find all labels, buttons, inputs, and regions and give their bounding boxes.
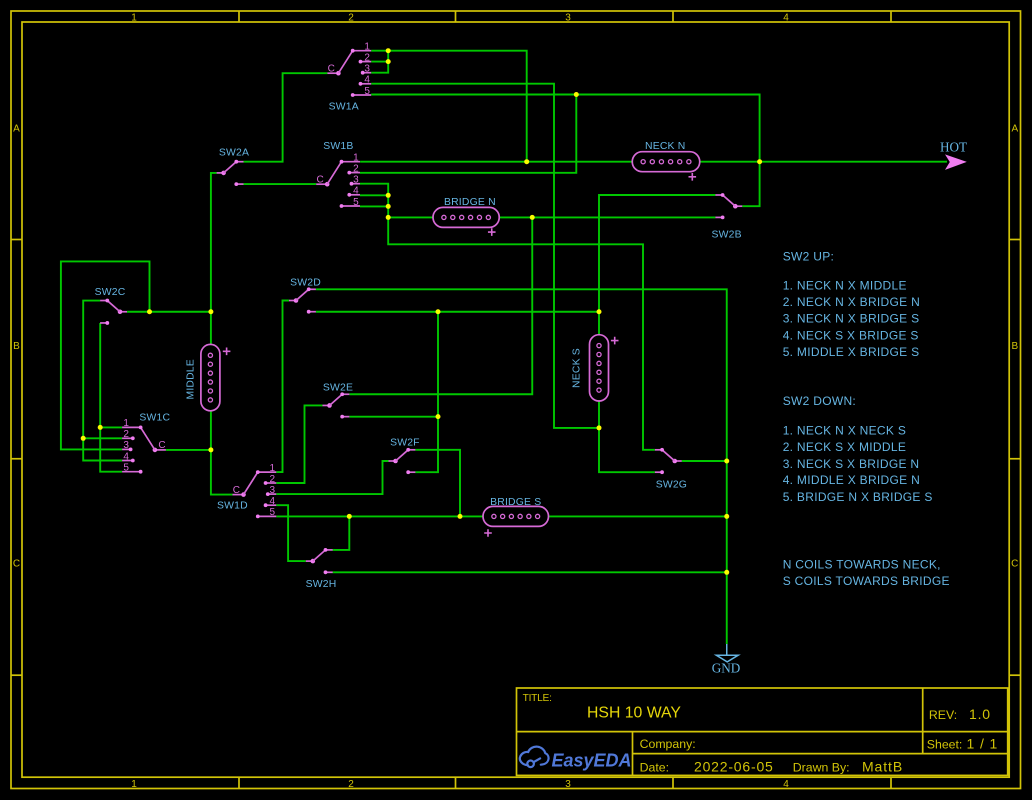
SW2A throw pin 2 — [236, 183, 243, 185]
SW1C common pin C — [155, 449, 166, 451]
SW1B lever — [327, 162, 341, 185]
svg-text:3: 3 — [565, 779, 571, 790]
SW1C pin 1 — [122, 426, 141, 428]
wire SW1B pin1 to NECK N left — [360, 161, 632, 163]
junction J14 — [436, 414, 441, 419]
svg-text:4. MIDDLE X BRIDGE N: 4. MIDDLE X BRIDGE N — [783, 473, 920, 487]
svg-text:3: 3 — [269, 485, 275, 496]
svg-text:SW2 DOWN:: SW2 DOWN: — [783, 394, 856, 408]
svg-text:C: C — [233, 485, 240, 496]
wire SW2A common to MIDDLE top — [211, 173, 217, 345]
svg-text:TITLE:: TITLE: — [523, 693, 552, 704]
pickup MIDDLE — [186, 344, 231, 410]
SW2H common pin — [306, 560, 313, 562]
svg-text:2. NECK S X MIDDLE: 2. NECK S X MIDDLE — [783, 440, 906, 454]
wire SW2C common to MIDDLE net — [127, 311, 211, 313]
logo EasyEDA — [520, 747, 632, 771]
svg-text:1 / 1: 1 / 1 — [967, 736, 999, 752]
switch SW1B — [316, 141, 360, 208]
junction J5 — [574, 92, 579, 97]
SW2F lever — [396, 450, 409, 461]
SW2H throw pin 2 — [326, 571, 333, 573]
SW1B pin 5 — [342, 205, 361, 207]
SW2C lever — [107, 301, 120, 312]
wire SW2B throw1 to NECK S top — [599, 195, 715, 335]
svg-text:A: A — [1011, 124, 1018, 135]
SW1C pin 2 — [122, 437, 133, 439]
wire SW1C common link — [166, 449, 211, 451]
wire BRIDGE N left — [388, 216, 433, 218]
SW2G throw pin 2 — [655, 471, 662, 473]
SW2D throw pin 2 — [309, 311, 316, 313]
SW1C lever — [141, 427, 155, 450]
junction J17 — [208, 447, 213, 452]
SW2B throw pin 2 — [715, 216, 722, 218]
SW2H lever — [313, 550, 326, 561]
svg-text:C: C — [316, 174, 323, 185]
svg-text:1: 1 — [131, 13, 137, 24]
SW1A pin 3 — [363, 72, 372, 74]
wire SW1C pin2 link — [83, 437, 122, 439]
SW1D pin 4 — [266, 504, 277, 506]
wire SW2D throw1 to GND rail — [316, 289, 727, 644]
switch SW2D — [289, 277, 321, 313]
svg-text:NECK S: NECK S — [572, 348, 583, 388]
switch SW2G — [655, 448, 687, 491]
ground GND — [712, 644, 741, 676]
switch SW2E — [323, 382, 354, 418]
wire SW1A C to SW2A throw1 — [244, 73, 328, 162]
wire SW2H throw2 to GND rail — [333, 571, 727, 573]
junction J21 — [724, 459, 729, 464]
svg-text:2: 2 — [269, 474, 275, 485]
svg-text:1: 1 — [353, 153, 359, 164]
wire SW2D common to SW1D pin1 — [276, 301, 289, 473]
wire BRIDGE S right to GND rail — [549, 515, 727, 517]
svg-text:C: C — [1011, 559, 1018, 570]
wire SW2C common branch to SW1C pin3 — [61, 261, 150, 449]
wire SW1A pin5 to SW2B common — [371, 95, 759, 207]
svg-text:Drawn By:: Drawn By: — [793, 761, 850, 775]
title block — [517, 688, 1008, 775]
SW2G throw pin 1 — [655, 449, 662, 451]
SW2B lever — [723, 195, 736, 206]
wire SW2E throw1 to BRIDGE N net — [349, 217, 532, 394]
svg-text:1. NECK N X MIDDLE: 1. NECK N X MIDDLE — [783, 278, 907, 292]
NECK N polarity mark + — [689, 173, 697, 181]
svg-text:5. MIDDLE X BRIDGE S: 5. MIDDLE X BRIDGE S — [783, 345, 920, 359]
switch SW1D — [217, 463, 276, 518]
junction J20 — [724, 514, 729, 519]
svg-text:3. NECK N X BRIDGE S: 3. NECK N X BRIDGE S — [783, 312, 920, 326]
SW2B common pin — [735, 205, 742, 207]
net flag HOT — [940, 140, 967, 170]
svg-text:EasyEDA: EasyEDA — [552, 751, 632, 771]
junction J12 — [436, 309, 441, 314]
wire MIDDLE bottom to SW1D common — [211, 411, 233, 495]
SW2A common pin — [217, 172, 224, 174]
switch SW2A — [217, 147, 250, 186]
wire SW1A pin3 link — [371, 51, 388, 73]
svg-text:3. NECK S X BRIDGE N: 3. NECK S X BRIDGE N — [783, 457, 920, 471]
wire SW1B pin4 link — [360, 194, 388, 196]
svg-text:A: A — [13, 124, 20, 135]
wire SW2H throw1 link — [333, 516, 350, 550]
switch SW2H — [306, 548, 337, 590]
svg-text:N COILS TOWARDS NECK,: N COILS TOWARDS NECK, — [783, 558, 941, 572]
svg-text:SW2A: SW2A — [219, 147, 249, 158]
svg-text:3: 3 — [565, 13, 571, 24]
wire SW2C throw2 to SW1C pins 1 and 5 — [100, 323, 122, 472]
wire SW2C throw1 to SW1C pin4 — [83, 301, 122, 461]
SW1B pin 2 — [349, 172, 360, 174]
svg-text:SW1A: SW1A — [329, 101, 359, 112]
SW2F throw pin 2 — [408, 471, 415, 473]
junction J2 — [386, 59, 391, 64]
svg-text:Company:: Company: — [640, 737, 696, 751]
SW2F common pin — [389, 460, 396, 462]
svg-text:C: C — [13, 559, 20, 570]
note SW2 DOWN list — [783, 394, 933, 504]
wire SW1A pin1 to NECK N net — [371, 51, 527, 162]
junction J8 — [386, 215, 391, 220]
junction J3 — [524, 159, 529, 164]
SW1A pin 2 — [361, 61, 372, 63]
svg-text:SW1C: SW1C — [139, 413, 170, 424]
SW2H throw pin 1 — [326, 549, 333, 551]
svg-text:4: 4 — [123, 451, 129, 462]
SW1D pin 1 — [258, 471, 277, 473]
svg-text:5. BRIDGE N X BRIDGE S: 5. BRIDGE N X BRIDGE S — [783, 490, 933, 504]
SW1B pin 3 — [352, 183, 361, 185]
SW1A pin 4 — [361, 83, 372, 85]
svg-text:MattB: MattB — [862, 759, 903, 775]
junction J18 — [347, 514, 352, 519]
pickup BRIDGE N — [433, 197, 499, 236]
svg-text:C: C — [158, 440, 165, 451]
NECK S polarity mark + — [611, 337, 619, 345]
wire SW2E throw2 link — [349, 416, 438, 418]
SW1D common pin C — [233, 494, 244, 496]
svg-text:SW2 UP:: SW2 UP: — [783, 250, 834, 264]
SW2D common pin — [289, 300, 296, 302]
SW1B common pin C — [316, 183, 327, 185]
svg-text:2: 2 — [348, 13, 354, 24]
svg-text:4: 4 — [353, 186, 359, 197]
BRIDGE N polarity mark + — [488, 228, 496, 236]
svg-text:3: 3 — [353, 175, 359, 186]
svg-text:1: 1 — [131, 779, 137, 790]
junction J19 — [458, 514, 463, 519]
SW2C throw pin 2 — [100, 322, 107, 324]
svg-text:2: 2 — [123, 429, 129, 440]
pickup NECK S — [572, 335, 619, 401]
junction J23 — [597, 425, 602, 430]
wire SW2G throw2 to NECK S bottom — [599, 428, 655, 472]
svg-text:1: 1 — [364, 42, 370, 53]
switch SW2F — [389, 437, 420, 474]
svg-text:1: 1 — [123, 418, 129, 429]
wire SW2F common to SW1D pin3 — [276, 461, 388, 494]
note SW2 UP list — [783, 250, 920, 359]
wire SW2G common to GND rail — [682, 460, 727, 462]
junction J22 — [724, 570, 729, 575]
SW1A lever — [338, 51, 352, 73]
svg-text:NECK N: NECK N — [645, 141, 685, 152]
svg-text:4: 4 — [269, 496, 275, 507]
SW2A throw pin 1 — [236, 161, 243, 163]
svg-text:5: 5 — [353, 197, 359, 208]
svg-text:4: 4 — [364, 75, 370, 86]
wire BRIDGE N right to SW2B throw2 — [499, 216, 715, 218]
junction J11 — [208, 309, 213, 314]
wire NECK S bottom link — [598, 401, 600, 428]
svg-text:SW2B: SW2B — [711, 230, 741, 241]
wire SW1B pin3 to SW2G throw1 — [360, 184, 655, 450]
SW1D lever — [244, 472, 258, 495]
SW2D lever — [296, 289, 309, 300]
wire SW2A throw2 to SW1B common — [244, 183, 317, 185]
wire NECK N right to HOT — [700, 161, 947, 163]
svg-text:GND: GND — [712, 661, 741, 676]
wire SW2E common to SW1D pin2 — [276, 405, 322, 483]
SW2F throw pin 1 — [408, 449, 415, 451]
svg-text:SW2F: SW2F — [390, 437, 420, 448]
svg-text:MIDDLE: MIDDLE — [186, 359, 197, 399]
svg-text:SW2G: SW2G — [656, 480, 687, 491]
wire SW2E net to SW2F throw2 — [415, 312, 438, 472]
switch SW1C — [122, 413, 170, 474]
junction J1 — [386, 48, 391, 53]
svg-text:5: 5 — [123, 463, 129, 474]
junction J4 — [757, 159, 762, 164]
svg-text:BRIDGE S: BRIDGE S — [490, 497, 541, 508]
junction J7 — [386, 204, 391, 209]
wire SW1D pin5 to BRIDGE S left — [276, 515, 483, 517]
SW1C pin 4 — [122, 460, 133, 462]
pickup NECK N — [632, 141, 700, 180]
svg-text:3: 3 — [123, 440, 129, 451]
wire SW2F throw1 to BRIDGE S net — [415, 450, 460, 517]
wire SW2D throw2 to NECK S net — [316, 311, 599, 313]
svg-text:C: C — [328, 63, 335, 74]
svg-text:B: B — [13, 341, 20, 352]
SW2E throw pin 1 — [342, 393, 349, 395]
wire SW1A pin2 link — [371, 61, 388, 63]
pickup BRIDGE S — [483, 497, 549, 537]
svg-text:2: 2 — [353, 163, 359, 174]
svg-text:REV:: REV: — [929, 708, 957, 722]
svg-text:5: 5 — [364, 86, 370, 97]
svg-text:5: 5 — [269, 507, 275, 518]
svg-text:SW1D: SW1D — [217, 501, 248, 512]
SW1B pin 1 — [342, 161, 361, 163]
BRIDGE S polarity mark + — [484, 529, 492, 537]
SW2G common pin — [675, 460, 682, 462]
svg-text:2022-06-05: 2022-06-05 — [694, 759, 774, 775]
switch SW2B — [711, 193, 742, 241]
svg-text:HSH 10 WAY: HSH 10 WAY — [587, 705, 681, 722]
SW1A pin 5 — [353, 94, 372, 96]
junction J13 — [597, 309, 602, 314]
svg-text:1.0: 1.0 — [969, 706, 991, 722]
wire SW1B pin5 link — [360, 205, 388, 207]
SW1B pin 4 — [349, 194, 360, 196]
svg-text:1: 1 — [269, 463, 275, 474]
svg-text:SW2E: SW2E — [323, 382, 353, 393]
svg-text:4: 4 — [783, 13, 789, 24]
svg-text:3: 3 — [364, 64, 370, 75]
SW2C common pin — [120, 311, 127, 313]
wire SW1D pin4 to SW2H common — [276, 505, 306, 561]
svg-text:S COILS TOWARDS BRIDGE: S COILS TOWARDS BRIDGE — [783, 574, 950, 588]
SW2G lever — [662, 450, 675, 461]
junction J6 — [386, 193, 391, 198]
SW1A pin 1 — [353, 50, 372, 52]
SW1D pin 2 — [266, 482, 277, 484]
svg-text:BRIDGE N: BRIDGE N — [444, 197, 496, 208]
svg-text:2: 2 — [364, 52, 370, 63]
svg-text:Date:: Date: — [640, 761, 669, 775]
svg-text:4: 4 — [783, 779, 789, 790]
svg-text:2: 2 — [348, 779, 354, 790]
svg-text:SW1B: SW1B — [323, 141, 353, 152]
svg-text:Sheet:: Sheet: — [927, 738, 963, 752]
SW2A lever — [224, 162, 237, 173]
junction J16 — [81, 436, 86, 441]
svg-text:SW2H: SW2H — [306, 579, 337, 590]
svg-text:SW2D: SW2D — [290, 277, 321, 288]
svg-text:HOT: HOT — [940, 140, 967, 155]
SW2E lever — [330, 394, 343, 405]
SW2E throw pin 2 — [342, 416, 349, 418]
svg-text:B: B — [1011, 341, 1018, 352]
svg-text:2. NECK N X BRIDGE N: 2. NECK N X BRIDGE N — [783, 295, 920, 309]
switch SW2C — [95, 287, 127, 325]
svg-text:SW2C: SW2C — [95, 287, 126, 298]
svg-text:4. NECK S X BRIDGE S: 4. NECK S X BRIDGE S — [783, 328, 919, 342]
SW1D pin 3 — [268, 493, 277, 495]
junction J10 — [147, 309, 152, 314]
junction J15 — [98, 425, 103, 430]
SW2E common pin — [323, 404, 330, 406]
junction J9 — [530, 215, 535, 220]
SW1D pin 5 — [258, 515, 277, 517]
SW2D throw pin 1 — [309, 288, 316, 290]
SW1A common pin C — [327, 72, 338, 74]
note coil orientation — [783, 558, 950, 589]
MIDDLE polarity mark + — [223, 348, 231, 356]
wire SW1C pin1 link — [100, 426, 122, 428]
SW2B throw pin 1 — [715, 194, 722, 196]
svg-text:1. NECK N X NECK S: 1. NECK N X NECK S — [783, 424, 906, 438]
SW1C pin 3 — [122, 448, 131, 450]
SW2C throw pin 1 — [100, 300, 107, 302]
switch SW1A — [327, 42, 371, 113]
wire SW1B pin2 link — [360, 95, 576, 173]
SW1C pin 5 — [122, 471, 141, 473]
wire SW1A pin4 to NECK S bottom — [371, 84, 599, 428]
